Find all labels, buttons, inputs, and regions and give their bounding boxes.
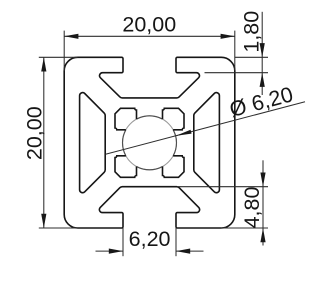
svg-text:4,80: 4,80 bbox=[240, 187, 264, 229]
arrows bbox=[41, 34, 265, 254]
left dim 20,00: ext lines bbox=[39, 56, 78, 58]
corner notch squares bbox=[115, 108, 184, 177]
dim texts bbox=[23, 11, 296, 251]
notch square BR bbox=[163, 156, 185, 178]
svg-text:20,00: 20,00 bbox=[122, 13, 176, 37]
right chamber bbox=[194, 93, 220, 193]
notch square TR bbox=[163, 108, 185, 130]
4,80 arrows bbox=[260, 173, 265, 187]
svg-text:6,20: 6,20 bbox=[129, 227, 171, 251]
bore arc left bbox=[123, 130, 126, 156]
leader line bbox=[106, 102, 306, 155]
1,80 arrows bbox=[260, 43, 265, 57]
4,80 ext lines bbox=[177, 186, 268, 188]
1,80 dim line bbox=[261, 12, 263, 95]
6,20 arrows bbox=[109, 249, 123, 254]
notch square TL bbox=[115, 108, 137, 130]
6,20 ext lines bbox=[122, 228, 124, 256]
leader arrow bbox=[176, 130, 192, 136]
dimension lines bbox=[39, 12, 305, 256]
left chamber bbox=[80, 93, 106, 193]
6,20 dim line left/right bbox=[96, 250, 124, 252]
bore arc right bbox=[173, 130, 176, 156]
1,80 ext lines bbox=[235, 56, 268, 58]
top dim line bbox=[64, 35, 235, 37]
left dim line bbox=[43, 57, 45, 228]
center bore thin circle bbox=[123, 116, 177, 170]
profile outer outline with T-slots bbox=[64, 57, 235, 228]
bore boundary arcs (thin dark) bbox=[123, 116, 177, 170]
svg-text:20,00: 20,00 bbox=[23, 106, 47, 160]
top dim arrows bbox=[64, 34, 78, 39]
bore arc bottom bbox=[137, 166, 163, 169]
svg-text:1,80: 1,80 bbox=[239, 11, 263, 53]
4,80 dim line bbox=[262, 160, 264, 245]
bore arc top bbox=[137, 116, 163, 119]
left dim arrows bbox=[41, 57, 46, 71]
notch square BL bbox=[115, 156, 137, 178]
top dim 20,00: ext lines bbox=[63, 31, 65, 71]
